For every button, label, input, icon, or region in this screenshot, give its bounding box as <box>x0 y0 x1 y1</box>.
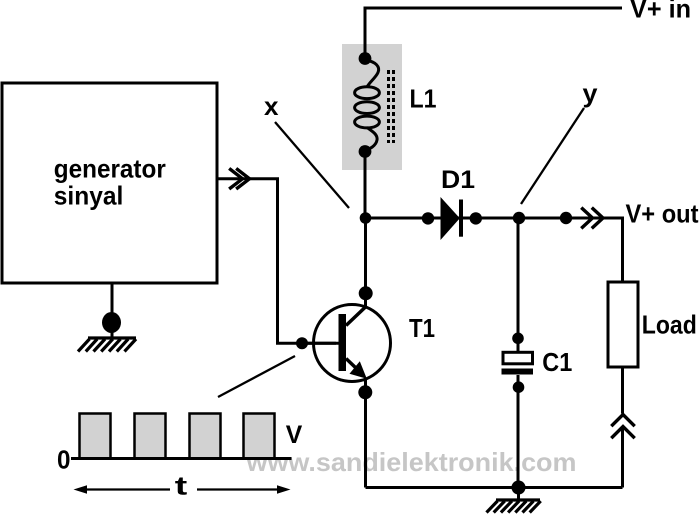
svg-text:sinyal: sinyal <box>54 181 124 211</box>
svg-text:D1: D1 <box>441 166 475 194</box>
svg-text:V+ in: V+ in <box>630 0 691 24</box>
svg-text:www.sandielektronik.com: www.sandielektronik.com <box>245 447 576 477</box>
svg-text:Load: Load <box>642 310 697 340</box>
svg-text:0: 0 <box>57 445 71 475</box>
svg-text:V+ out: V+ out <box>626 198 699 228</box>
svg-text:x: x <box>264 91 279 121</box>
svg-text:y: y <box>583 78 599 108</box>
svg-text:t: t <box>175 471 188 501</box>
svg-text:C1: C1 <box>542 347 572 377</box>
svg-text:generator: generator <box>54 154 166 184</box>
svg-text:V: V <box>286 421 303 449</box>
svg-text:L1: L1 <box>410 84 437 114</box>
svg-text:T1: T1 <box>409 313 435 343</box>
